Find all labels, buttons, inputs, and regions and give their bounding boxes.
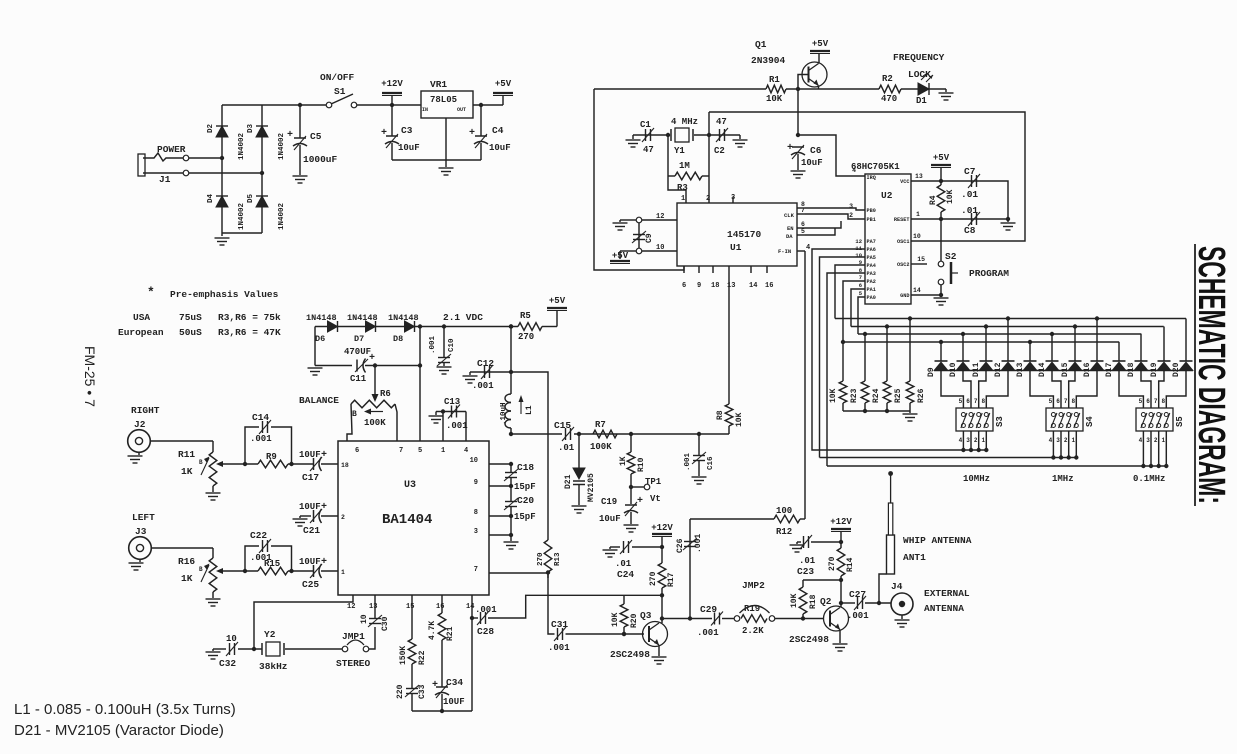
svg-text:10UF: 10UF [299, 557, 321, 567]
svg-text:6: 6 [355, 447, 359, 455]
svg-text:PB1: PB1 [867, 217, 876, 223]
svg-text:C16: C16 [707, 456, 715, 470]
svg-text:9: 9 [697, 282, 701, 290]
svg-text:Y1: Y1 [674, 146, 685, 156]
svg-text:14: 14 [466, 603, 474, 611]
svg-text:12: 12 [855, 238, 862, 245]
svg-text:7: 7 [859, 274, 862, 281]
svg-text:R9: R9 [266, 452, 277, 462]
svg-text:C24: C24 [617, 569, 634, 580]
svg-text:1N4002: 1N4002 [278, 202, 286, 230]
svg-text:PA6: PA6 [867, 247, 876, 253]
svg-text:.001: .001 [250, 553, 272, 563]
svg-text:+: + [432, 680, 438, 691]
svg-text:8: 8 [1161, 398, 1165, 405]
svg-text:U2: U2 [881, 190, 893, 201]
svg-text:14: 14 [913, 287, 921, 294]
svg-text:U1: U1 [730, 242, 742, 253]
svg-text:D21: D21 [564, 474, 573, 489]
svg-text:100K: 100K [364, 418, 386, 428]
svg-text:10: 10 [226, 634, 237, 644]
svg-text:B: B [199, 566, 203, 573]
svg-text:10K: 10K [735, 412, 744, 427]
svg-text:R12: R12 [776, 527, 792, 537]
svg-text:1N4002: 1N4002 [278, 132, 286, 160]
svg-text:1N4002: 1N4002 [238, 202, 246, 230]
svg-text:+: + [321, 450, 327, 461]
svg-text:2.2K: 2.2K [742, 626, 764, 636]
svg-text:RIGHT: RIGHT [131, 405, 160, 416]
svg-text:L1 - 0.085 - 0.100uH (3.5x Tur: L1 - 0.085 - 0.100uH (3.5x Turns) [14, 701, 236, 718]
svg-text:WHIP ANTENNA: WHIP ANTENNA [903, 535, 972, 546]
svg-text:145170: 145170 [727, 229, 762, 240]
svg-text:13: 13 [369, 603, 377, 611]
svg-text:PROGRAM: PROGRAM [969, 268, 1009, 279]
svg-text:1K: 1K [181, 466, 193, 477]
svg-text:.001: .001 [847, 611, 869, 621]
svg-text:4: 4 [464, 447, 468, 455]
svg-text:+: + [469, 128, 475, 139]
svg-text:68HC705K1: 68HC705K1 [851, 162, 900, 172]
svg-text:2: 2 [1154, 437, 1158, 444]
svg-text:4: 4 [806, 244, 810, 252]
svg-text:270: 270 [537, 552, 545, 566]
svg-text:10: 10 [855, 252, 862, 259]
svg-text:S3: S3 [995, 416, 1005, 427]
svg-text:+12V: +12V [381, 79, 403, 89]
svg-text:10: 10 [470, 457, 478, 465]
svg-text:D21 - MV2105 (Varactor Diode): D21 - MV2105 (Varactor Diode) [14, 722, 224, 739]
svg-text:D1: D1 [916, 96, 927, 106]
svg-text:D18: D18 [1127, 362, 1136, 377]
svg-text:R8: R8 [716, 410, 725, 420]
svg-text:10: 10 [360, 614, 369, 624]
svg-text:1N4002: 1N4002 [238, 132, 246, 160]
svg-text:R17: R17 [667, 572, 676, 587]
svg-text:ON/OFF: ON/OFF [320, 72, 355, 83]
svg-text:4: 4 [959, 437, 963, 444]
svg-text:+5V: +5V [933, 153, 950, 163]
svg-text:12: 12 [656, 213, 664, 221]
svg-text:C6: C6 [810, 145, 822, 156]
svg-text:6: 6 [1056, 398, 1060, 405]
svg-text:2: 2 [974, 437, 978, 444]
svg-text:D14: D14 [1038, 362, 1047, 377]
svg-text:.001: .001 [475, 605, 497, 615]
svg-text:2: 2 [341, 514, 345, 521]
svg-text:VCC: VCC [900, 179, 909, 185]
svg-text:7: 7 [1064, 398, 1068, 405]
svg-text:L1: L1 [525, 405, 534, 415]
svg-text:C20: C20 [517, 495, 534, 506]
svg-text:C34: C34 [446, 677, 463, 688]
svg-text:15: 15 [406, 603, 414, 611]
svg-text:13: 13 [915, 173, 923, 180]
svg-text:8: 8 [474, 509, 478, 517]
svg-text:+5V: +5V [812, 39, 829, 49]
svg-text:B: B [352, 410, 357, 419]
svg-text:.001: .001 [250, 434, 272, 444]
svg-text:0.1MHz: 0.1MHz [1133, 474, 1165, 484]
svg-text:ANTENNA: ANTENNA [924, 603, 964, 614]
svg-text:+: + [321, 557, 327, 568]
svg-text:+: + [787, 143, 793, 154]
svg-text:PA3: PA3 [867, 271, 876, 277]
svg-text:R10: R10 [637, 457, 646, 472]
svg-text:R5: R5 [520, 311, 531, 321]
svg-text:R13: R13 [554, 552, 562, 566]
svg-text:10: 10 [913, 233, 921, 240]
svg-text:POWER: POWER [157, 144, 186, 155]
svg-text:.001: .001 [446, 421, 468, 431]
svg-text:4.7K: 4.7K [428, 621, 437, 640]
svg-text:50uS: 50uS [179, 327, 202, 338]
svg-text:2SC2498: 2SC2498 [610, 649, 650, 660]
svg-text:Y2: Y2 [264, 629, 276, 640]
svg-text:D8: D8 [393, 334, 403, 344]
svg-text:R3,R6 = 47K: R3,R6 = 47K [218, 327, 281, 338]
svg-text:+: + [321, 502, 327, 513]
svg-text:15pF: 15pF [514, 482, 536, 492]
svg-text:DA: DA [786, 233, 793, 240]
svg-text:R7: R7 [595, 420, 606, 430]
svg-text:47: 47 [643, 145, 654, 155]
svg-text:Q3: Q3 [640, 610, 652, 621]
svg-text:15pF: 15pF [514, 512, 536, 522]
svg-text:D6: D6 [315, 334, 325, 344]
svg-text:6: 6 [859, 282, 862, 289]
svg-text:+: + [637, 496, 643, 507]
svg-text:RESET: RESET [894, 217, 910, 223]
svg-text:10UF: 10UF [299, 450, 321, 460]
svg-text:PA1: PA1 [867, 287, 876, 293]
svg-text:C31: C31 [551, 619, 568, 630]
svg-text:5: 5 [859, 290, 863, 297]
svg-text:EXTERNAL: EXTERNAL [924, 588, 970, 599]
svg-text:3: 3 [966, 437, 970, 444]
svg-text:Q2: Q2 [820, 596, 832, 607]
svg-text:150K: 150K [399, 646, 408, 665]
svg-text:5: 5 [801, 228, 805, 235]
svg-text:C22: C22 [250, 530, 267, 541]
svg-text:1: 1 [441, 447, 445, 455]
svg-text:EN: EN [787, 225, 794, 232]
svg-text:PA7: PA7 [867, 239, 876, 245]
svg-text:C32: C32 [219, 658, 236, 669]
svg-text:D15: D15 [1061, 362, 1070, 377]
svg-text:10UF: 10UF [299, 502, 321, 512]
svg-text:6: 6 [801, 221, 805, 228]
svg-text:U3: U3 [404, 480, 416, 491]
svg-text:SCHEMATIC DIAGRAM:: SCHEMATIC DIAGRAM: [1190, 246, 1232, 504]
svg-text:F-IN: F-IN [778, 248, 791, 255]
svg-text:.01: .01 [558, 443, 575, 453]
svg-text:D9: D9 [927, 367, 936, 377]
svg-text:.001: .001 [548, 643, 570, 653]
svg-text:1N4148: 1N4148 [306, 313, 337, 323]
svg-text:+: + [381, 128, 387, 139]
svg-text:1N4148: 1N4148 [347, 313, 378, 323]
svg-text:C29: C29 [700, 604, 717, 615]
svg-text:R4: R4 [929, 195, 938, 205]
svg-text:+12V: +12V [651, 523, 673, 533]
svg-text:PA2: PA2 [867, 279, 876, 285]
svg-text:D4: D4 [207, 193, 215, 203]
svg-text:8: 8 [1071, 398, 1075, 405]
svg-text:2: 2 [706, 195, 710, 203]
svg-text:D17: D17 [1105, 362, 1114, 377]
svg-text:C10: C10 [448, 338, 456, 352]
svg-text:C12: C12 [477, 358, 494, 369]
svg-text:D10: D10 [949, 362, 958, 377]
svg-text:D2: D2 [207, 123, 215, 133]
svg-text:220: 220 [396, 684, 405, 699]
svg-text:Vt: Vt [650, 494, 661, 504]
svg-text:USA: USA [133, 312, 150, 323]
svg-text:16: 16 [436, 603, 444, 611]
svg-text:1: 1 [341, 569, 345, 576]
svg-text:270: 270 [518, 332, 534, 342]
svg-text:7: 7 [474, 566, 478, 574]
svg-text:PA0: PA0 [867, 295, 876, 301]
svg-text:4: 4 [1049, 437, 1053, 444]
svg-text:C3: C3 [401, 125, 413, 136]
svg-text:D12: D12 [994, 362, 1003, 377]
svg-text:1K: 1K [181, 573, 193, 584]
svg-text:C8: C8 [964, 225, 976, 236]
svg-text:D16: D16 [1083, 362, 1092, 377]
svg-text:PB0: PB0 [867, 208, 876, 214]
svg-text:C11: C11 [350, 374, 367, 384]
svg-text:VR1: VR1 [430, 79, 447, 90]
svg-text:R3,R6 = 75k: R3,R6 = 75k [218, 312, 281, 323]
svg-text:R23: R23 [850, 388, 859, 403]
svg-text:78L05: 78L05 [430, 95, 457, 105]
svg-text:+12V: +12V [830, 517, 852, 527]
svg-text:1: 1 [916, 211, 920, 218]
svg-text:C7: C7 [964, 166, 976, 177]
svg-text:D7: D7 [354, 334, 364, 344]
svg-text:S4: S4 [1085, 416, 1095, 427]
svg-text:C33: C33 [418, 684, 427, 699]
svg-text:270: 270 [828, 556, 837, 571]
svg-text:R2: R2 [882, 74, 893, 84]
svg-text:10: 10 [656, 244, 664, 252]
svg-text:MV2105: MV2105 [587, 473, 596, 502]
svg-text:3: 3 [474, 528, 478, 536]
svg-text:12: 12 [347, 603, 355, 611]
svg-text:10K: 10K [946, 189, 955, 204]
svg-text:R24: R24 [872, 388, 881, 403]
svg-text:47: 47 [716, 117, 727, 127]
svg-text:470: 470 [881, 94, 897, 104]
svg-text:1000uF: 1000uF [303, 154, 338, 165]
svg-text:S5: S5 [1175, 416, 1185, 427]
svg-text:1: 1 [1071, 437, 1075, 444]
svg-text:J2: J2 [134, 419, 146, 430]
svg-text:R16: R16 [178, 556, 195, 567]
svg-text:.01: .01 [799, 556, 816, 566]
svg-text:OUT: OUT [457, 107, 466, 113]
svg-text:PA4: PA4 [867, 263, 876, 269]
svg-text:C17: C17 [302, 472, 319, 483]
svg-text:7: 7 [801, 207, 805, 214]
svg-text:9: 9 [474, 479, 478, 487]
svg-text:R14: R14 [846, 557, 855, 572]
svg-text:10MHz: 10MHz [963, 474, 990, 484]
svg-text:C18: C18 [517, 462, 534, 473]
svg-text:TP1: TP1 [645, 477, 662, 487]
svg-text:+: + [369, 353, 375, 364]
svg-text:7: 7 [1154, 398, 1158, 405]
svg-text:OSC2: OSC2 [897, 262, 909, 268]
svg-text:ANT1: ANT1 [903, 552, 926, 563]
svg-text:JMP1: JMP1 [342, 631, 365, 642]
svg-text:D20: D20 [1172, 362, 1181, 377]
svg-text:5: 5 [1049, 398, 1053, 405]
svg-text:.001: .001 [684, 452, 692, 471]
svg-text:European: European [118, 327, 164, 338]
svg-text:.01: .01 [615, 559, 632, 569]
svg-text:100: 100 [776, 506, 792, 516]
svg-text:STEREO: STEREO [336, 658, 371, 669]
svg-text:Q1: Q1 [755, 39, 767, 50]
svg-text:D11: D11 [972, 362, 981, 377]
svg-text:FREQUENCY: FREQUENCY [893, 52, 945, 63]
svg-text:C1: C1 [640, 120, 651, 130]
svg-text:S1: S1 [334, 86, 346, 97]
svg-text:2N3904: 2N3904 [751, 55, 786, 66]
svg-text:R26: R26 [917, 388, 926, 403]
svg-text:IRQ: IRQ [867, 175, 876, 181]
svg-text:IN: IN [422, 107, 428, 113]
svg-text:2.1 VDC: 2.1 VDC [443, 312, 483, 323]
svg-text:10uF: 10uF [801, 158, 823, 168]
svg-text:C14: C14 [252, 412, 269, 423]
svg-text:75uS: 75uS [179, 312, 202, 323]
svg-text:GND: GND [900, 293, 909, 299]
svg-text:7: 7 [974, 398, 978, 405]
svg-text:OSC1: OSC1 [897, 239, 909, 245]
svg-text:PA5: PA5 [867, 255, 876, 261]
svg-text:.001: .001 [429, 335, 437, 354]
svg-text:6: 6 [1146, 398, 1150, 405]
svg-text:R20: R20 [630, 613, 639, 628]
svg-text:5: 5 [418, 447, 422, 455]
svg-text:R18: R18 [809, 594, 818, 609]
svg-text:16: 16 [765, 282, 773, 290]
svg-text:3: 3 [1146, 437, 1150, 444]
svg-text:1K: 1K [619, 456, 628, 466]
svg-text:270: 270 [649, 571, 658, 586]
svg-text:R21: R21 [446, 626, 455, 641]
svg-text:5: 5 [959, 398, 963, 405]
svg-text:S2: S2 [945, 251, 957, 262]
svg-text:J4: J4 [891, 581, 903, 592]
svg-text:6: 6 [966, 398, 970, 405]
svg-text:.001: .001 [694, 534, 703, 553]
svg-text:4: 4 [1139, 437, 1143, 444]
svg-text:CLK: CLK [784, 212, 795, 219]
svg-text:10K: 10K [829, 388, 838, 403]
svg-text:C13: C13 [444, 397, 460, 407]
svg-text:470UF: 470UF [344, 347, 371, 357]
svg-text:+5V: +5V [495, 79, 512, 89]
svg-text:C21: C21 [303, 525, 320, 536]
svg-text:10K: 10K [790, 593, 799, 608]
svg-text:D3: D3 [247, 123, 255, 133]
svg-text:R22: R22 [418, 650, 427, 665]
svg-text:1M: 1M [679, 161, 690, 171]
svg-text:.01: .01 [961, 205, 978, 216]
svg-text:+: + [287, 130, 293, 141]
svg-text:1: 1 [681, 195, 685, 203]
svg-text:10K: 10K [611, 612, 620, 627]
svg-text:J1: J1 [159, 174, 171, 185]
svg-text:10uF: 10uF [398, 143, 420, 153]
svg-text:2: 2 [1064, 437, 1068, 444]
svg-text:3: 3 [849, 203, 853, 210]
svg-text:C5: C5 [310, 131, 322, 142]
svg-text:D5: D5 [247, 193, 255, 203]
svg-text:D19: D19 [1150, 362, 1159, 377]
svg-text:38kHz: 38kHz [259, 661, 288, 672]
svg-text:R19: R19 [744, 604, 760, 614]
svg-text:1MHz: 1MHz [1052, 474, 1074, 484]
svg-text:J3: J3 [135, 526, 147, 537]
svg-text:.001: .001 [697, 628, 719, 638]
svg-text:C19: C19 [601, 497, 617, 507]
svg-text:R6: R6 [380, 389, 391, 399]
svg-text:C15: C15 [554, 420, 571, 431]
svg-text:B: B [199, 459, 203, 466]
svg-text:LEFT: LEFT [132, 512, 155, 523]
svg-text:6: 6 [682, 282, 686, 290]
svg-text:100K: 100K [590, 442, 612, 452]
svg-text:R25: R25 [894, 388, 903, 403]
svg-text:R1: R1 [769, 75, 780, 85]
svg-text:13: 13 [727, 282, 735, 290]
svg-text:3: 3 [1056, 437, 1060, 444]
svg-text:C26: C26 [676, 538, 685, 553]
svg-text:.01: .01 [961, 189, 978, 200]
svg-text:14: 14 [749, 282, 757, 290]
svg-text:10uF: 10uF [489, 143, 511, 153]
svg-text:8: 8 [981, 398, 985, 405]
svg-text:*: * [147, 285, 155, 300]
svg-text:1: 1 [981, 437, 985, 444]
svg-text:C30: C30 [381, 616, 390, 631]
svg-text:2SC2498: 2SC2498 [789, 634, 829, 645]
svg-text:4 MHz: 4 MHz [671, 117, 698, 127]
svg-text:18: 18 [711, 282, 719, 290]
svg-text:D13: D13 [1016, 362, 1025, 377]
svg-text:LOCK: LOCK [908, 69, 931, 80]
svg-text:BA1404: BA1404 [382, 512, 432, 528]
svg-text:4: 4 [852, 167, 856, 174]
svg-text:.10uH: .10uH [500, 402, 508, 425]
svg-text:15: 15 [917, 256, 925, 263]
svg-text:C2: C2 [714, 146, 725, 156]
svg-text:C28: C28 [477, 626, 494, 637]
svg-text:+5V: +5V [549, 296, 566, 306]
svg-text:C9: C9 [645, 233, 654, 243]
svg-text:FM-25 • 7: FM-25 • 7 [82, 346, 98, 407]
svg-text:R11: R11 [178, 449, 195, 460]
svg-text:10K: 10K [766, 94, 783, 104]
svg-text:C4: C4 [492, 125, 504, 136]
svg-text:5: 5 [1139, 398, 1143, 405]
